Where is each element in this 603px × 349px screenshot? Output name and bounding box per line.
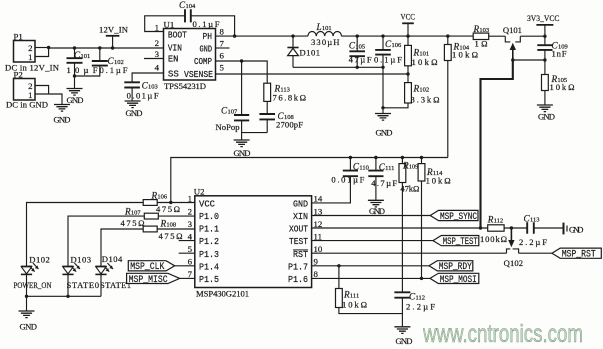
svg-text:1nF: 1nF bbox=[552, 48, 567, 58]
node Q101 gate junction bbox=[511, 58, 514, 61]
connector P1 bbox=[14, 41, 36, 63]
svg-text:C107: C107 bbox=[221, 106, 238, 116]
svg-text:330µH: 330µH bbox=[311, 37, 340, 47]
flag MSP_RDY bbox=[429, 261, 473, 271]
svg-text:R106: R106 bbox=[151, 191, 168, 201]
svg-text:6: 6 bbox=[220, 51, 225, 61]
svg-text:R103: R103 bbox=[473, 24, 490, 34]
wire D102 anode to R106 bbox=[27, 203, 144, 267]
svg-text:100kΩ: 100kΩ bbox=[480, 234, 507, 244]
svg-text:MSP_MOSI: MSP_MOSI bbox=[440, 274, 477, 285]
svg-text:COMP: COMP bbox=[194, 56, 212, 67]
svg-text:9: 9 bbox=[314, 257, 319, 267]
flag MSP_CLK bbox=[128, 261, 174, 271]
wire LED bus to ground bbox=[26, 296, 28, 310]
wire 12V main rail bbox=[49, 47, 164, 49]
svg-text:P1: P1 bbox=[14, 32, 23, 42]
connector P2 bbox=[14, 79, 36, 101]
svg-text:www.cntronics.com: www.cntronics.com bbox=[422, 320, 583, 348]
resistor R102 bbox=[407, 74, 409, 83]
wire U2 pin10 RST bbox=[312, 252, 507, 254]
svg-text:SS: SS bbox=[168, 69, 179, 80]
svg-text:NoPop: NoPop bbox=[216, 122, 240, 132]
svg-text:GND: GND bbox=[200, 44, 213, 55]
svg-text:2: 2 bbox=[155, 38, 159, 48]
ground C111 bbox=[368, 200, 384, 207]
svg-text:DC in GND: DC in GND bbox=[6, 100, 48, 110]
node R102 ground join bbox=[381, 106, 384, 109]
wire P1 pin2 stub bbox=[35, 47, 49, 49]
svg-text:P1.4: P1.4 bbox=[199, 261, 219, 272]
capacitor C106 bbox=[381, 34, 384, 37]
wire R112 to C113 bbox=[504, 227, 527, 229]
resistor R109 bbox=[401, 158, 403, 164]
svg-text:P1.3: P1.3 bbox=[199, 249, 219, 260]
resistor R105 bbox=[542, 75, 549, 91]
svg-text:L101: L101 bbox=[316, 22, 332, 32]
diode D101 bbox=[292, 36, 294, 47]
svg-text:11: 11 bbox=[314, 231, 322, 241]
svg-text:GND: GND bbox=[234, 148, 251, 158]
svg-text:3V3_VCC: 3V3_VCC bbox=[527, 13, 560, 23]
svg-text:5: 5 bbox=[220, 63, 225, 73]
capacitor C109 bbox=[537, 45, 552, 50]
svg-text:C110: C110 bbox=[353, 162, 369, 172]
wire R114 to pin8 bbox=[421, 181, 423, 278]
wire C113 to ground port bbox=[534, 227, 564, 229]
svg-text:C104: C104 bbox=[179, 0, 196, 10]
svg-text:XOUT: XOUT bbox=[289, 224, 308, 235]
ground P2 bbox=[54, 105, 70, 112]
inductor L101 bbox=[308, 31, 342, 36]
svg-text:P1.6: P1.6 bbox=[288, 274, 308, 285]
ground C103 bbox=[125, 101, 141, 108]
svg-text:XIN: XIN bbox=[293, 211, 308, 222]
svg-text:10: 10 bbox=[314, 244, 323, 254]
ground output bbox=[375, 114, 391, 121]
svg-text:GND: GND bbox=[54, 115, 71, 125]
svg-text:7: 7 bbox=[220, 39, 225, 49]
wire R104 to MCU VCC bus bbox=[447, 61, 449, 158]
svg-text:3: 3 bbox=[188, 219, 193, 229]
svg-text:475Ω: 475Ω bbox=[156, 204, 180, 214]
resistor R113 bbox=[264, 83, 271, 101]
ground comp network bbox=[234, 140, 250, 147]
svg-text:Q101: Q101 bbox=[503, 25, 522, 35]
svg-text:P1.0: P1.0 bbox=[199, 211, 219, 222]
svg-text:EN: EN bbox=[168, 54, 179, 65]
ground R105 bbox=[537, 105, 553, 112]
wire U2 pin9 P1.7 bbox=[312, 265, 429, 267]
ground port after C113 bbox=[563, 223, 565, 235]
svg-text:5: 5 bbox=[188, 244, 193, 254]
svg-text:VSENSE: VSENSE bbox=[184, 69, 213, 80]
svg-text:GND: GND bbox=[369, 206, 385, 216]
wire R106 to U2 pin1 bbox=[157, 202, 195, 204]
wire MSP_CLK to pin6 bbox=[175, 265, 195, 267]
svg-text:STATE0: STATE0 bbox=[67, 280, 100, 290]
node VCC bus to pin1 bbox=[169, 201, 172, 204]
svg-text:6: 6 bbox=[188, 257, 193, 267]
svg-text:10µF: 10µF bbox=[67, 65, 98, 75]
node feedback divider bbox=[406, 72, 409, 75]
wire U2 pin12 XOUT bbox=[312, 227, 488, 229]
svg-text:POWER_ON: POWER_ON bbox=[14, 280, 53, 290]
svg-text:TEST: TEST bbox=[289, 236, 308, 247]
svg-text:GND: GND bbox=[126, 108, 143, 118]
flag MSP_RST bbox=[552, 248, 601, 258]
svg-text:C111: C111 bbox=[379, 162, 395, 172]
capacitor C108 bbox=[266, 101, 268, 114]
node R114 to pin8 bbox=[420, 277, 423, 280]
svg-text:10kΩ: 10kΩ bbox=[452, 49, 478, 59]
wire LED cathode bus bbox=[26, 274, 28, 296]
capacitor C101 bbox=[73, 46, 76, 49]
node D101 anode bbox=[291, 34, 294, 37]
svg-text:12: 12 bbox=[314, 219, 323, 229]
wire R107 to U2 pin2 bbox=[158, 215, 195, 217]
svg-text:P1.7: P1.7 bbox=[288, 261, 308, 272]
svg-text:MSP_RDY: MSP_RDY bbox=[439, 261, 472, 272]
wire U2 pin11 TEST bbox=[312, 240, 433, 242]
svg-text:GND: GND bbox=[67, 95, 84, 105]
svg-text:MSP_RST: MSP_RST bbox=[562, 249, 596, 260]
flag MSP_MOSI bbox=[430, 273, 479, 283]
wire U2 pin5 stub bbox=[179, 252, 195, 254]
svg-text:D101: D101 bbox=[300, 47, 321, 57]
svg-text:P1.1: P1.1 bbox=[199, 224, 219, 235]
svg-text:10kΩ: 10kΩ bbox=[342, 300, 367, 310]
svg-text:C106: C106 bbox=[385, 39, 402, 49]
op-amp U1 TPS54231D regulator bbox=[164, 29, 216, 81]
node R112/C113/Q102 junction bbox=[510, 226, 513, 229]
svg-text:VIN: VIN bbox=[168, 43, 182, 54]
svg-text:C113: C113 bbox=[524, 214, 540, 224]
svg-text:14: 14 bbox=[314, 194, 323, 204]
svg-text:0.1µF: 0.1µF bbox=[374, 55, 402, 65]
svg-text:MSP_CLK: MSP_CLK bbox=[130, 261, 164, 272]
wire MSP_MISC to pin7 bbox=[180, 277, 195, 279]
wire D104 anode to R108 bbox=[101, 229, 143, 266]
wire R103 to Q101 bbox=[489, 35, 506, 37]
svg-text:P1.2: P1.2 bbox=[199, 236, 219, 247]
svg-text:PH: PH bbox=[203, 31, 213, 42]
wire U1 EN stub bbox=[144, 58, 164, 60]
node COMP junction bbox=[240, 59, 243, 62]
svg-text:0.01µF: 0.01µF bbox=[127, 91, 159, 101]
svg-text:76.8kΩ: 76.8kΩ bbox=[273, 93, 307, 103]
svg-text:GND: GND bbox=[376, 128, 393, 138]
svg-text:0.1µF: 0.1µF bbox=[193, 19, 220, 29]
U2 RST overline bbox=[293, 249, 308, 251]
svg-text:C112: C112 bbox=[409, 292, 425, 302]
LED D103 bbox=[62, 265, 73, 267]
node Q101 drop to XOUT bbox=[479, 226, 482, 229]
svg-text:7: 7 bbox=[188, 269, 193, 279]
resistor R111 bbox=[338, 266, 340, 289]
svg-text:4: 4 bbox=[188, 231, 193, 241]
wire P2 pin2 stub bbox=[35, 86, 49, 95]
wire R109 to C112 bbox=[401, 183, 403, 293]
flag MSP_MISC bbox=[127, 273, 180, 283]
svg-text:D102: D102 bbox=[29, 255, 50, 265]
svg-text:475Ω: 475Ω bbox=[121, 218, 145, 228]
capacitor C103 slow-start bbox=[132, 73, 163, 82]
wire U1 PH output bbox=[216, 35, 308, 37]
svg-text:0.01µF: 0.01µF bbox=[331, 174, 364, 184]
node R111 junction bbox=[337, 264, 340, 267]
svg-text:P1.5: P1.5 bbox=[199, 274, 219, 285]
svg-text:MSP430G2101: MSP430G2101 bbox=[196, 289, 249, 299]
capacitor C110 bbox=[349, 158, 351, 171]
svg-text:4: 4 bbox=[155, 63, 160, 73]
svg-text:GND: GND bbox=[396, 336, 413, 346]
wire Q101 gate drop (thick) bbox=[481, 60, 513, 228]
svg-text:4.7µF: 4.7µF bbox=[371, 178, 397, 188]
wire R111 to ground bus bbox=[339, 308, 403, 314]
resistor R106 bbox=[143, 200, 157, 206]
wire C101 to ground bbox=[74, 76, 76, 88]
svg-text:47kΩ: 47kΩ bbox=[400, 184, 419, 194]
wire R108 to U2 pin3 bbox=[157, 228, 195, 230]
resistor R107 bbox=[144, 213, 158, 219]
svg-text:2: 2 bbox=[188, 206, 192, 216]
wire D103 anode to R107 bbox=[68, 216, 144, 266]
svg-text:GND: GND bbox=[20, 322, 38, 332]
wire U1 GND pin7 stub bbox=[216, 47, 230, 49]
resistor R108 bbox=[143, 226, 157, 232]
capacitor C105 bbox=[356, 34, 359, 37]
svg-text:P2: P2 bbox=[14, 70, 23, 80]
resistor R112 bbox=[488, 225, 504, 231]
ground LEDs bbox=[19, 311, 35, 318]
svg-text:VCC: VCC bbox=[199, 199, 215, 210]
wire output ground bus bbox=[293, 66, 383, 68]
svg-text:8: 8 bbox=[220, 27, 225, 37]
svg-text:MSP_TEST: MSP_TEST bbox=[443, 236, 478, 247]
svg-text:R102: R102 bbox=[413, 84, 430, 94]
svg-text:RST: RST bbox=[293, 249, 308, 260]
wire Q101 gate RC bbox=[513, 59, 545, 61]
svg-text:R107: R107 bbox=[124, 206, 141, 216]
op-amp U2 MSP430G2101 MCU bbox=[195, 196, 312, 288]
svg-text:U1: U1 bbox=[164, 20, 175, 30]
svg-text:8: 8 bbox=[314, 269, 319, 279]
svg-text:13: 13 bbox=[314, 206, 323, 216]
wire MCU VCC bus bbox=[171, 158, 448, 203]
svg-text:3.3kΩ: 3.3kΩ bbox=[411, 94, 440, 104]
svg-text:MSP_SYNC: MSP_SYNC bbox=[440, 211, 477, 222]
capacitor C111 bbox=[375, 158, 377, 171]
LED D102 bbox=[21, 265, 32, 267]
svg-text:2700pF: 2700pF bbox=[276, 119, 303, 129]
node PH junction bbox=[233, 34, 236, 37]
svg-text:U2: U2 bbox=[194, 187, 205, 197]
svg-text:R112: R112 bbox=[487, 215, 503, 225]
svg-text:GND: GND bbox=[569, 224, 584, 234]
flag MSP_SYNC bbox=[430, 210, 478, 220]
wire U2 pin14 GND net bbox=[312, 177, 351, 203]
svg-text:10kΩ: 10kΩ bbox=[426, 176, 451, 186]
svg-text:1: 1 bbox=[28, 90, 32, 100]
resistor R101 bbox=[407, 36, 409, 45]
svg-text:R109: R109 bbox=[402, 160, 418, 170]
node 12V input junction bbox=[47, 46, 50, 49]
wire P2 pin1 stub to ground bbox=[35, 94, 62, 104]
svg-text:MSP_MISC: MSP_MISC bbox=[129, 274, 168, 285]
flag MSP_TEST bbox=[433, 236, 479, 246]
wire P1 pin1 stub bbox=[35, 48, 49, 57]
capacitor C104 boot bbox=[145, 16, 185, 32]
svg-text:Q102: Q102 bbox=[504, 258, 523, 268]
svg-text:2.2µF: 2.2µF bbox=[519, 237, 547, 247]
wire VCC output rail bbox=[341, 35, 473, 37]
resistor R103 bbox=[473, 33, 489, 39]
svg-text:10kΩ: 10kΩ bbox=[550, 82, 575, 92]
svg-text:BOOT: BOOT bbox=[168, 29, 187, 40]
svg-text:0.1µF: 0.1µF bbox=[100, 65, 128, 75]
capacitor C102 bbox=[98, 46, 101, 49]
svg-text:R108: R108 bbox=[160, 219, 177, 229]
svg-text:R111: R111 bbox=[343, 290, 359, 300]
svg-text:TPS54231D: TPS54231D bbox=[164, 81, 206, 91]
svg-text:C101: C101 bbox=[74, 50, 90, 60]
ground C112 bbox=[394, 327, 410, 334]
svg-text:2.2µF: 2.2µF bbox=[406, 302, 435, 312]
svg-text:D103: D103 bbox=[71, 255, 92, 265]
svg-text:R101: R101 bbox=[413, 48, 430, 58]
svg-text:VCC: VCC bbox=[401, 12, 416, 22]
capacitor C107 NoPop bbox=[241, 61, 243, 115]
svg-text:D104: D104 bbox=[102, 254, 123, 264]
svg-text:10kΩ: 10kΩ bbox=[412, 57, 438, 67]
svg-text:C103: C103 bbox=[142, 81, 158, 91]
svg-text:GND: GND bbox=[538, 111, 555, 121]
transistor Q102 bbox=[510, 228, 512, 241]
svg-text:47µF: 47µF bbox=[349, 55, 372, 65]
svg-text:1Ω: 1Ω bbox=[475, 39, 488, 49]
wire comp network ground bus bbox=[242, 132, 268, 134]
wire Q102 to MSP_RST bbox=[519, 252, 552, 254]
capacitor C112 bbox=[394, 292, 410, 297]
wire U2 pin8 P1.6 bbox=[312, 277, 430, 279]
wire U1 COMP bbox=[216, 61, 268, 83]
capacitor C113 bbox=[527, 222, 534, 234]
wire U2 pin4 stub bbox=[179, 240, 195, 242]
wire Q101 drain to 3V3 rail bbox=[520, 35, 545, 37]
ground C101 bbox=[67, 89, 83, 96]
svg-text:12V_IN: 12V_IN bbox=[99, 25, 129, 35]
svg-text:3: 3 bbox=[155, 49, 160, 59]
wire U2 pin13 XIN bbox=[312, 215, 431, 217]
LED D104 bbox=[95, 265, 106, 267]
wire U1 VSENSE feedback bbox=[216, 73, 409, 75]
svg-text:1: 1 bbox=[28, 52, 32, 62]
resistor R104 bbox=[446, 34, 449, 37]
resistor R114 bbox=[421, 158, 423, 164]
svg-text:GND: GND bbox=[293, 199, 308, 210]
wire ground bus drop bbox=[382, 67, 384, 113]
svg-text:475Ω: 475Ω bbox=[159, 231, 183, 241]
node C101/C102 ground join bbox=[73, 74, 76, 77]
